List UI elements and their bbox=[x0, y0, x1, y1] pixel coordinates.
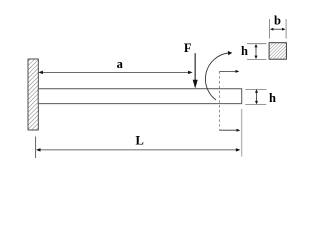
svg-text:F: F bbox=[184, 41, 192, 55]
svg-text:L: L bbox=[136, 134, 144, 148]
svg-text:a: a bbox=[117, 57, 124, 71]
svg-text:h: h bbox=[241, 44, 248, 58]
svg-text:h: h bbox=[269, 91, 276, 105]
svg-text:b: b bbox=[274, 14, 281, 28]
